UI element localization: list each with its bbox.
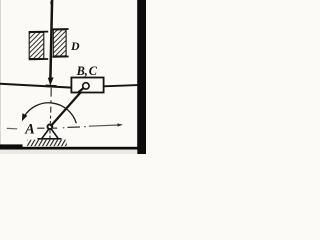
- rotation arc arrow about A: [24, 103, 76, 123]
- pin joint B: [83, 83, 89, 89]
- slider box B,C: [71, 78, 103, 93]
- rod top tick: [50, 1, 52, 5]
- wire: guide rail horizontal line, right segment: [103, 85, 138, 86]
- centerline through A (dash-dot), right part with arrow: [53, 125, 119, 128]
- centerline dashes below A: [49, 130, 51, 138]
- pin joint A: [48, 124, 53, 129]
- guide D: right hatched block: [52, 29, 68, 57]
- rod of slider D (vertical stem): [50, 0, 52, 78]
- label D: [70, 39, 80, 53]
- ground line: [38, 138, 62, 140]
- label A: [24, 122, 34, 138]
- centerline arrowhead: [117, 123, 123, 126]
- rail tick at rod junction: [46, 85, 57, 88]
- svg-text:D: D: [70, 39, 80, 53]
- faint page left edge: [0, 0, 2, 145]
- svg-text:C: C: [89, 64, 98, 78]
- vertical dashed reference line from rod to A: [49, 88, 52, 123]
- ground hatching: [27, 140, 67, 147]
- crank arm AB: [51, 86, 86, 126]
- centerline through A (dash-dot), left part: [7, 127, 45, 130]
- support triangle at A: [42, 129, 59, 139]
- wire: guide rail horizontal line, left segment: [0, 84, 72, 88]
- crank arm inside box: [78, 86, 86, 93]
- arrowhead at rod bottom: [48, 77, 54, 85]
- svg-text:A: A: [24, 122, 34, 138]
- svg-text:B,: B,: [76, 64, 88, 78]
- guide D: left hatched block: [29, 32, 49, 60]
- arc arrowhead: [22, 113, 27, 121]
- label B,C: [76, 64, 98, 78]
